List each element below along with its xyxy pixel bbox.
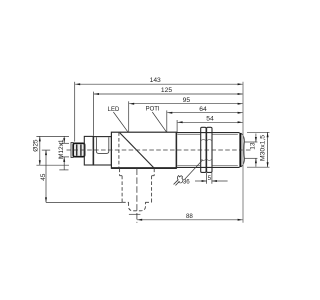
svg-text:64: 64 <box>199 106 207 113</box>
svg-text:M30x1,5: M30x1,5 <box>259 135 266 161</box>
svg-text:5: 5 <box>208 175 212 182</box>
svg-text:88: 88 <box>186 213 193 220</box>
svg-text:125: 125 <box>161 87 172 94</box>
svg-text:36: 36 <box>183 178 190 185</box>
svg-text:45: 45 <box>40 173 47 181</box>
svg-text:LED: LED <box>108 107 120 113</box>
svg-text:Ø25: Ø25 <box>32 139 39 152</box>
svg-text:54: 54 <box>206 116 214 123</box>
svg-text:143: 143 <box>150 77 161 84</box>
svg-text:M12x1: M12x1 <box>58 139 65 159</box>
svg-text:95: 95 <box>183 97 191 104</box>
svg-text:13: 13 <box>249 142 256 150</box>
svg-text:POTI: POTI <box>146 107 160 113</box>
